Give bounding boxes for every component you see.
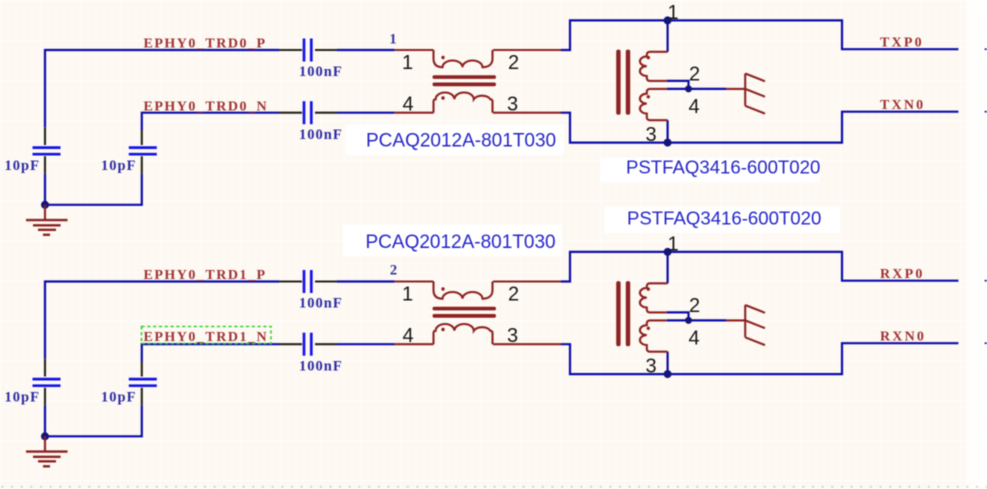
svg-text:TXP0: TXP0 (880, 36, 924, 51)
svg-text:100nF: 100nF (299, 127, 343, 143)
svg-text:2: 2 (390, 263, 397, 279)
svg-text:4: 4 (402, 93, 413, 115)
svg-text:PCAQ2012A-801T030: PCAQ2012A-801T030 (366, 131, 556, 152)
svg-text:EPHY0_TRD0_P: EPHY0_TRD0_P (144, 37, 267, 52)
svg-text:RXP0: RXP0 (880, 267, 925, 282)
svg-text:EPHY0_TRD1_P: EPHY0_TRD1_P (144, 268, 267, 283)
svg-text:1: 1 (389, 32, 396, 48)
svg-text:TXN0: TXN0 (880, 98, 925, 113)
svg-text:3: 3 (507, 93, 518, 115)
svg-text:PSTFAQ3416-600T020: PSTFAQ3416-600T020 (627, 208, 821, 229)
svg-text:1: 1 (667, 2, 678, 24)
svg-text:10pF: 10pF (5, 158, 40, 174)
svg-text:2: 2 (689, 64, 700, 86)
svg-text:PSTFAQ3416-600T020: PSTFAQ3416-600T020 (626, 157, 820, 178)
svg-text:EPHY0_TRD0_N: EPHY0_TRD0_N (144, 100, 269, 115)
svg-text:10pF: 10pF (101, 158, 136, 174)
svg-text:PCAQ2012A-801T030: PCAQ2012A-801T030 (366, 232, 556, 253)
svg-text:4: 4 (688, 96, 699, 118)
svg-text:2: 2 (508, 52, 519, 74)
svg-text:RXN0: RXN0 (880, 330, 926, 345)
svg-text:3: 3 (645, 124, 656, 146)
svg-text:100nF: 100nF (299, 64, 343, 80)
svg-text:1: 1 (402, 52, 413, 74)
